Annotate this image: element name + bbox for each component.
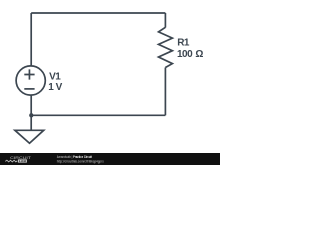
wire left column: V1 negative terminal down to junction bbox=[30, 95, 32, 115]
voltage source V1 circle bbox=[16, 66, 45, 95]
junction node dot bbox=[29, 113, 33, 117]
wire right column: top wire to R1 pin 1 bbox=[164, 13, 166, 28]
ground symbol triangle bbox=[15, 130, 44, 143]
ground stub wire bbox=[30, 115, 32, 130]
svg-text:LAB: LAB bbox=[19, 159, 27, 163]
CircuitLab logo resistor zigzag bbox=[5, 160, 17, 162]
svg-text:Amandsuth | Practice Circuit: Amandsuth | Practice Circuit bbox=[57, 155, 93, 159]
footer bar bbox=[0, 153, 220, 165]
wire right column: R1 pin 2 down to bottom wire bbox=[164, 68, 166, 116]
resistor R1 body bbox=[159, 27, 173, 67]
wire top net from V1+ to R1 bbox=[31, 12, 165, 14]
V1 plus sign bbox=[24, 69, 34, 79]
wire left column: top wire to V1 positive terminal bbox=[30, 13, 32, 66]
wire bottom net from junction to R1 pin 2 bbox=[31, 114, 165, 116]
svg-text:http://circuitlab.com/c/frt6kq: http://circuitlab.com/c/frt6kqp4gprs bbox=[57, 159, 104, 163]
CircuitLab logo LAB box bbox=[18, 159, 27, 162]
V1 minus sign bbox=[24, 88, 34, 90]
